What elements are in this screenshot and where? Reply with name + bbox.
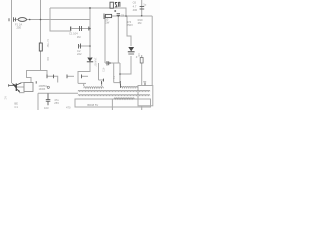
svg-text:470: 470	[66, 106, 71, 110]
svg-text:C6: C6	[133, 1, 137, 5]
svg-text:472: 472	[102, 68, 106, 73]
svg-text:250V: 250V	[127, 23, 133, 27]
svg-text:1N4007: 1N4007	[94, 58, 98, 68]
svg-text:C5: C5	[121, 14, 125, 18]
svg-text:1W: 1W	[46, 57, 50, 61]
svg-text:D6: D6	[137, 54, 141, 58]
svg-text:4.7: 4.7	[133, 4, 137, 8]
svg-text:BR08 5V: BR08 5V	[87, 103, 98, 107]
svg-text:250: 250	[17, 26, 22, 30]
svg-text:13003: 13003	[39, 88, 46, 91]
svg-text:C1: C1	[14, 105, 18, 109]
svg-text:1u: 1u	[143, 2, 146, 6]
svg-text:4.7 5W: 4.7 5W	[46, 39, 50, 48]
svg-text:103: 103	[44, 106, 49, 110]
svg-text:1W: 1W	[105, 21, 109, 25]
svg-text:BE: BE	[14, 102, 18, 106]
svg-text:25V: 25V	[54, 101, 59, 105]
svg-text:222: 222	[77, 52, 82, 56]
svg-text:400: 400	[133, 8, 138, 12]
svg-text:C1 104: C1 104	[69, 32, 78, 36]
